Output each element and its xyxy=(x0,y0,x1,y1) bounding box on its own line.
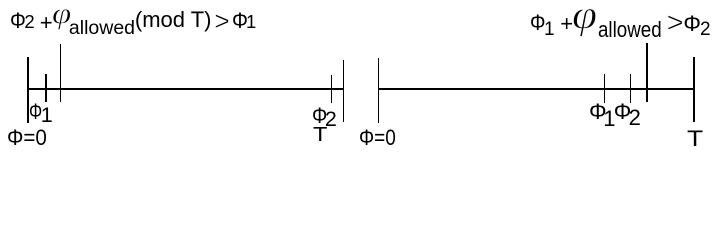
right formula: PHI xyxy=(683,13,701,35)
right timeline: origin tick (PHI=0) xyxy=(378,58,380,123)
left timeline: PHI2 tick xyxy=(331,75,333,104)
right formula: varphi xyxy=(572,0,597,35)
right formula: greater-than xyxy=(667,9,684,38)
right formula: PHI xyxy=(530,12,545,34)
left formula: PHI2 xyxy=(10,10,26,32)
right timeline: PHI2 tick xyxy=(630,74,632,103)
left timeline label PHI=0 xyxy=(7,127,47,149)
right timeline axis wire xyxy=(378,88,695,90)
left timeline: PHI1 tick xyxy=(45,74,47,102)
right timeline label PHI1 xyxy=(589,101,607,123)
left formula: greater-than xyxy=(214,8,229,35)
left timeline label PHI1 sub 1 xyxy=(41,105,53,127)
right timeline label PHI2 xyxy=(614,101,632,123)
right formula: plus xyxy=(560,13,573,35)
left formula: varphi xyxy=(52,0,71,29)
right timeline label T xyxy=(687,128,703,150)
right timeline label PHI2 sub 2 xyxy=(629,107,641,129)
left formula: PHI xyxy=(232,10,248,32)
right timeline label PHI=0 xyxy=(359,127,396,149)
left timeline label T xyxy=(313,125,327,145)
left timeline label PHI1 xyxy=(29,101,42,123)
left formula: (mod T) xyxy=(135,9,212,31)
left timeline label PHI2 sub 2 xyxy=(325,109,337,131)
right timeline: end tick (T) xyxy=(693,57,695,122)
left timeline: tall tick (PHI2+phi mod T) xyxy=(60,44,62,102)
left timeline: origin tick (PHI=0) xyxy=(27,57,29,124)
right timeline: tall tick (PHI1+phi) xyxy=(646,43,648,102)
left timeline label PHI2 xyxy=(312,105,327,127)
right timeline label PHI1 sub 1 xyxy=(603,108,615,130)
left formula: sub 2 xyxy=(24,13,34,32)
left formula: allowed subscript xyxy=(69,19,135,39)
right formula: sub 1 xyxy=(544,20,555,39)
left timeline: end tick (T) xyxy=(343,60,345,122)
right formula: allowed subscript xyxy=(598,19,662,41)
right timeline: PHI1 tick xyxy=(604,74,606,103)
right formula: sub 2 xyxy=(700,20,711,39)
left formula: plus xyxy=(40,12,53,34)
left formula: sub 1 xyxy=(246,13,256,32)
left timeline axis wire xyxy=(27,88,344,90)
